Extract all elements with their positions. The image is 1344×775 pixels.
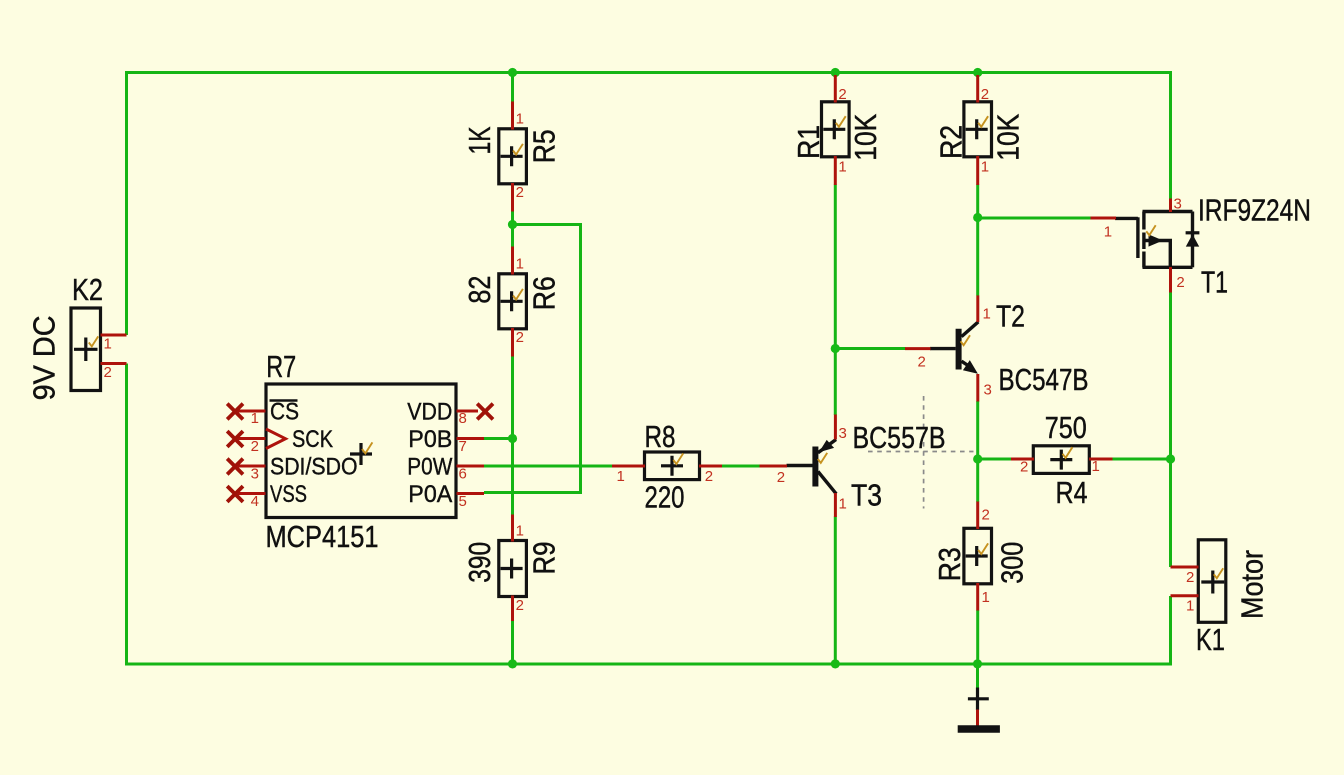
svg-text:1K: 1K (462, 126, 497, 154)
svg-text:3: 3 (839, 425, 847, 442)
svg-text:2: 2 (516, 184, 524, 201)
label T1 value IRF9Z24N (1198, 192, 1311, 227)
label R2 name (933, 125, 968, 159)
wire bottom rail (125, 663, 1172, 666)
wire R3 to bottom rail (976, 610, 979, 666)
svg-text:5: 5 (459, 493, 467, 510)
junction node A below R5 (508, 220, 517, 229)
svg-text:2: 2 (1186, 569, 1194, 586)
transistor T3 BC557B body (787, 440, 837, 494)
wire node A to R6 (511, 225, 514, 248)
resistor R1 pin 1 (835, 156, 846, 185)
wire bottom rail to ground (976, 664, 979, 688)
junction T2 base node (831, 344, 840, 353)
svg-text:1: 1 (839, 496, 847, 513)
connector K2 pin 2 (101, 364, 127, 382)
svg-text:K2: K2 (72, 272, 103, 307)
svg-text:1: 1 (516, 255, 524, 272)
junction bottom rail / T3 (831, 659, 840, 668)
label K1 value Motor (1235, 550, 1270, 619)
label R7 value MCP4151 (266, 519, 379, 554)
IC R7 pin 4 VSS with no-connect X (227, 486, 265, 510)
svg-text:P0W: P0W (407, 454, 452, 481)
label R9 value 390 (462, 542, 497, 583)
resistor R5 body (499, 129, 527, 184)
IC R7 pin 2 SCK with no-connect X (227, 431, 265, 455)
svg-text:2: 2 (705, 468, 713, 485)
svg-text:4: 4 (251, 493, 259, 510)
svg-text:2: 2 (1176, 274, 1184, 291)
svg-text:P0B: P0B (408, 426, 452, 453)
label R9 name (527, 542, 562, 575)
svg-text:T3: T3 (851, 478, 882, 513)
svg-text:1: 1 (838, 159, 846, 176)
wire R3 node to R3 (976, 459, 979, 502)
svg-text:2: 2 (981, 86, 989, 103)
mosfet T1 pin 2 source (1171, 267, 1185, 293)
svg-text:2: 2 (1020, 459, 1028, 476)
label R2 value 10K (990, 113, 1025, 160)
svg-text:R7: R7 (266, 349, 296, 384)
svg-text:K1: K1 (1196, 622, 1225, 657)
junction R3/R4 node (973, 454, 982, 463)
svg-text:R1: R1 (791, 125, 826, 159)
resistor R2 body (964, 102, 992, 157)
IC R7 pin 7 P0B (457, 438, 485, 455)
label R1 value 10K (848, 113, 883, 160)
transistor T3 pin 3 emitter (835, 415, 846, 443)
svg-text:R4: R4 (1056, 475, 1088, 510)
resistor R6 pin 2 (513, 328, 524, 357)
transistor T2 pin 1 collector (978, 295, 991, 322)
connector K2 body (71, 308, 101, 391)
resistor R2 pin 1 (978, 156, 989, 185)
svg-text:VSS: VSS (270, 481, 307, 508)
wire R8 to T3 base (722, 465, 761, 468)
resistor R5 pin 1 (513, 102, 524, 130)
label T3 value BC557B (853, 420, 946, 455)
wire gate node to T1 gate (978, 217, 1091, 220)
transistor T2 pin 2 base (905, 349, 931, 371)
svg-text:10K: 10K (990, 113, 1025, 160)
resistor R6 pin 1 (513, 247, 524, 275)
mosfet T1 IRF9Z24N body (1115, 212, 1199, 268)
wire R3 node to R4 (978, 458, 1012, 461)
svg-text:MCP4151: MCP4151 (266, 519, 379, 554)
svg-text:T1: T1 (1201, 265, 1228, 300)
svg-text:750: 750 (1045, 410, 1087, 445)
svg-text:BC547B: BC547B (999, 362, 1089, 397)
resistor R8 pin 1 (612, 466, 645, 485)
wire left rail lower (125, 364, 128, 666)
connector K2 pin 1 (101, 335, 127, 353)
svg-text:2: 2 (251, 438, 259, 455)
svg-text:1: 1 (251, 410, 259, 427)
svg-text:3: 3 (1174, 196, 1182, 213)
svg-text:CS: CS (270, 399, 299, 426)
svg-text:1: 1 (983, 306, 991, 323)
wire gate node to T2 collector (976, 218, 979, 296)
junction bottom rail / ground (973, 659, 982, 668)
IC R7 MCP4151 body (266, 384, 456, 518)
svg-text:2: 2 (918, 354, 926, 371)
svg-text:1: 1 (516, 523, 524, 540)
resistor R1 body (822, 102, 850, 157)
svg-text:1: 1 (981, 159, 989, 176)
svg-text:Motor: Motor (1235, 550, 1270, 619)
svg-text:1: 1 (982, 589, 990, 606)
origin crosshair dashed lines near T3/T2 (868, 396, 974, 509)
mosfet T1 pin 3 drain (1171, 196, 1182, 213)
svg-text:1: 1 (1186, 598, 1194, 615)
resistor R9 body (499, 541, 527, 597)
label T1 name (1201, 265, 1228, 300)
junction bottom rail / R9 (508, 659, 517, 668)
svg-text:2: 2 (516, 329, 524, 346)
label K1 name (1196, 622, 1225, 657)
IC R7 pin 6 P0W (457, 466, 485, 483)
wire R4 node to K1 pin2 (1169, 459, 1172, 567)
label R3 value 300 (995, 542, 1030, 584)
IC R7 pin 3 SDI/SDO with no-connect X (227, 459, 265, 483)
ground symbol (958, 688, 1000, 730)
wire T2 emitter to R3 node (976, 401, 979, 460)
svg-text:220: 220 (645, 480, 685, 515)
svg-text:SCK: SCK (292, 426, 333, 453)
svg-text:R9: R9 (527, 542, 562, 575)
svg-text:VDD: VDD (407, 399, 452, 426)
label R6 value 82 (462, 276, 497, 304)
wire K1 pin1 to bottom rail (1169, 596, 1172, 666)
wire T2 base node to T2 (835, 347, 905, 350)
resistor R3 pin 1 (978, 583, 990, 611)
IC R7 pin 1 CS with no-connect X (227, 404, 265, 427)
transistor T2 BC547B body (930, 322, 978, 374)
wire R5 to node A (511, 211, 514, 226)
resistor R9 pin 2 (513, 596, 524, 622)
svg-text:3: 3 (984, 382, 992, 399)
svg-text:R8: R8 (645, 419, 676, 454)
IC R7 pin 8 VDD with no-connect X (457, 404, 494, 427)
wire R6 to node B to R9 (511, 356, 514, 516)
resistor R8 pin 2 (699, 466, 722, 485)
wire right rail T1 source to R4 node (1169, 292, 1172, 460)
resistor R3 pin 2 (978, 502, 990, 530)
svg-text:T2: T2 (996, 299, 1025, 334)
IC R7 pin 5 P0A (457, 493, 485, 510)
label R4 name (1056, 475, 1088, 510)
connector K1 pin 1 (1171, 596, 1199, 615)
label R1 name (791, 125, 826, 159)
wire P0W to R8 (484, 465, 613, 468)
connector K1 body (1198, 540, 1226, 623)
svg-text:6: 6 (459, 466, 467, 483)
junction node B at P0B (508, 434, 517, 443)
label R4 value 750 (1045, 410, 1087, 445)
wire R4 to right rail (1112, 458, 1171, 461)
label K2 name (72, 272, 103, 307)
mosfet T1 pin 1 gate (1091, 218, 1117, 241)
label T2 name (996, 299, 1025, 334)
resistor R5 pin 2 (513, 183, 524, 212)
wire node A feedback to P0A (484, 225, 581, 493)
label T2 value BC547B (999, 362, 1089, 397)
wire T3 collector to bottom rail (834, 517, 837, 666)
svg-text:82: 82 (462, 276, 497, 304)
svg-text:R2: R2 (933, 125, 968, 159)
wire T2 base node to T3 emitter (834, 349, 837, 416)
svg-text:300: 300 (995, 542, 1030, 584)
wire R9 to bottom rail (511, 621, 514, 666)
svg-text:BC557B: BC557B (853, 420, 946, 455)
svg-text:8: 8 (459, 410, 467, 427)
svg-text:1: 1 (1104, 224, 1112, 241)
wire R1 to T2 base node (834, 185, 837, 350)
svg-text:R5: R5 (527, 129, 562, 163)
svg-text:9V DC: 9V DC (27, 315, 62, 400)
svg-text:1: 1 (516, 110, 524, 127)
svg-text:1: 1 (1092, 458, 1100, 475)
svg-text:2: 2 (838, 86, 846, 103)
svg-text:7: 7 (459, 438, 467, 455)
wire P0B to node B (484, 437, 515, 440)
connector K1 pin 2 (1171, 567, 1199, 586)
svg-text:3: 3 (251, 466, 259, 483)
resistor R4 pin 2 (1011, 459, 1034, 476)
resistor R8 body (645, 452, 700, 480)
resistor R4 pin 1 (1089, 458, 1113, 475)
resistor R9 pin 1 (513, 515, 524, 542)
wire right rail upper (1169, 71, 1172, 200)
wire R2 to gate node (976, 185, 979, 219)
label R8 name (645, 419, 676, 454)
junction R4 / right rail (1166, 454, 1175, 463)
resistor R6 body (499, 274, 527, 329)
label R5 name (527, 129, 562, 163)
resistor R1 pin 2 (835, 75, 846, 103)
junction top rail / R1 (831, 68, 840, 77)
label K2 value 9V DC (27, 315, 62, 400)
wire top rail VCC (125, 71, 1172, 74)
svg-text:R6: R6 (527, 276, 562, 310)
svg-text:P0A: P0A (408, 481, 452, 508)
label R8 value 220 (645, 480, 685, 515)
label R5 value 1K (462, 126, 497, 154)
label R7 name (266, 349, 296, 384)
label T3 name (851, 478, 882, 513)
svg-text:390: 390 (462, 542, 497, 583)
label R3 name (932, 547, 967, 581)
resistor R3 body (964, 528, 992, 584)
svg-text:R3: R3 (932, 547, 967, 581)
label R6 name (527, 276, 562, 310)
svg-text:SDI/SDO: SDI/SDO (270, 454, 358, 481)
svg-text:2: 2 (516, 597, 524, 614)
svg-text:1: 1 (617, 468, 625, 485)
transistor T3 pin 2 base (760, 466, 788, 486)
junction top rail / R5 (508, 68, 517, 77)
junction top rail / R2 (973, 68, 982, 77)
svg-text:2: 2 (982, 507, 990, 524)
svg-text:2: 2 (104, 364, 112, 381)
resistor R2 pin 2 (978, 75, 989, 103)
svg-text:IRF9Z24N: IRF9Z24N (1198, 192, 1311, 227)
transistor T2 pin 3 emitter (978, 374, 992, 402)
resistor R4 body (1033, 446, 1089, 474)
wire top rail to R5 (511, 71, 514, 102)
svg-text:10K: 10K (848, 113, 883, 160)
svg-text:2: 2 (777, 469, 785, 486)
junction gate node (973, 213, 982, 222)
svg-text:1: 1 (104, 336, 112, 353)
transistor T3 pin 1 collector (835, 493, 846, 517)
wire left rail upper (125, 71, 128, 335)
